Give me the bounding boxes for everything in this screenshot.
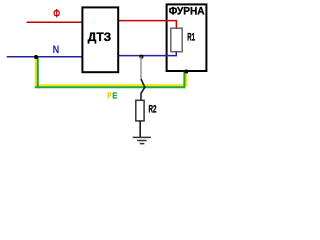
box U2 ФУРНА (oven enclosure) [167,4,207,71]
ground symbol [133,137,151,143]
wire R2 to ground [139,121,141,137]
node junction N/PE tap [34,55,38,59]
resistor R1 [171,28,182,52]
resistor R2 [136,100,144,121]
svg-text:ДТЗ: ДТЗ [88,32,111,44]
svg-text:ФУРНА: ФУРНА [169,6,205,18]
wire PE green stripe vertical left [37,57,39,88]
svg-text:E: E [112,91,117,100]
box U1 ДТЗ (RCD breaker) [82,7,118,72]
wire neutral left (blue, N) [7,56,82,58]
wire PE yellow stripe horizontal [35,84,188,86]
wire PE green stripe vertical right [183,72,185,89]
wire PE green stripe horizontal [35,86,186,88]
wire black jog crossing PE [141,79,145,101]
wire neutral right (blue, ДТЗ to R1 bottom) [119,52,177,56]
node junction PE to oven chassis [184,69,188,73]
wire PE yellow stripe vertical right [185,71,187,86]
svg-text:R2: R2 [149,104,157,116]
wire phase left (red, Ф) [27,21,82,23]
svg-text:R1: R1 [187,32,195,44]
node junction N to R2 drop [139,55,143,59]
wire phase right (red, ДТЗ to R1 top) [119,21,177,29]
wire grey drop from N junction [140,57,142,80]
svg-text:Ф: Ф [53,6,60,20]
wire PE yellow stripe vertical left [35,57,37,86]
svg-text:N: N [53,44,60,56]
svg-text:P: P [107,91,111,100]
